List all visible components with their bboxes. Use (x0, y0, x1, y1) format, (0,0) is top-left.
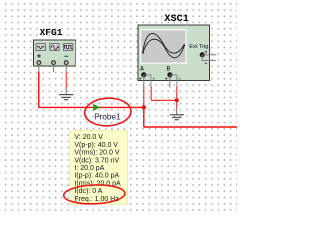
wire ground node down (176, 100, 178, 108)
XSC1 screen waveform trace lower (143, 39, 185, 58)
node junction ground (175, 98, 179, 102)
XFG1 terminal - (pin 3) (64, 61, 68, 65)
annotation red ellipse around Probe1 (84, 97, 132, 127)
XSC1 A polarity marks (139, 78, 155, 80)
svg-text:V(dc): 3.70 nV: V(dc): 3.70 nV (74, 157, 119, 164)
wire node down and right to edge (144, 107, 237, 127)
svg-text:I(dc): 0 A: I(dc): 0 A (74, 188, 102, 195)
XFG1 minus terminal label (64, 55, 68, 57)
svg-text:B: B (166, 66, 170, 73)
XSC1 screen (141, 30, 186, 63)
wire scope B- down to ground node (176, 86, 178, 100)
XFG1 terminal + (pin 1) (37, 61, 41, 65)
XSC1 pin B- (170, 75, 177, 87)
wire XFG1 plus down and right to node (39, 72, 144, 108)
XSC1 Ext Trig terminal (200, 51, 207, 57)
XFG1 sine wave button (36, 44, 45, 51)
XSC1 terminal B (168, 72, 173, 77)
annotation red ellipse around Freq value (63, 184, 125, 205)
XSC1 pin A- (144, 75, 151, 87)
svg-text:XSC1: XSC1 (164, 14, 188, 25)
wire scope A- down and right to ground node (151, 86, 176, 100)
XSC1 terminal A (141, 72, 146, 77)
svg-text:V(p-p): 40.0 V: V(p-p): 40.0 V (74, 142, 118, 149)
svg-text:A: A (140, 66, 144, 73)
function generator XFG1 body (34, 40, 77, 66)
probe readout box Probe1 values (70, 130, 128, 204)
svg-text:V(rms): 20.0 V: V(rms): 20.0 V (74, 150, 119, 157)
XFG1 pin stub - (65, 65, 67, 72)
XSC1 screen waveform trace upper (143, 33, 185, 53)
XFG1 square wave button (63, 44, 72, 51)
XFG1 triangle wave button (50, 44, 59, 51)
ground GND1 below XFG1 (59, 89, 73, 100)
wire scope A+ down to node (143, 86, 145, 107)
XFG1 pin stub + (38, 65, 40, 72)
svg-text:I: 20.0 pA: I: 20.0 pA (74, 165, 104, 172)
oscilloscope XSC1 body (138, 25, 210, 81)
XSC1 pin A+ (143, 75, 145, 87)
XSC1 trace end markers (142, 44, 185, 53)
XFG1 terminal COM (pin 2) (52, 61, 56, 65)
svg-text:XFG1: XFG1 (40, 27, 63, 38)
wire XFG1 minus to ground (65, 72, 67, 89)
XSC1 Ext Trig pin + (202, 54, 216, 56)
XSC1 Ext Trig minus mark (205, 62, 207, 64)
svg-text:I(p-p): 40.0 pA: I(p-p): 40.0 pA (74, 173, 119, 180)
probe arrow Probe1 (94, 104, 100, 110)
XSC1 pin B+ (169, 75, 171, 88)
svg-text:Ext Trig.: Ext Trig. (189, 44, 210, 50)
XFG1 plus terminal label (37, 54, 41, 58)
node junction main (A+/source/out) (142, 105, 146, 109)
svg-text:V: 20.0 V: V: 20.0 V (74, 134, 103, 141)
XSC1 Ext Trig pin - (202, 55, 215, 61)
XFG1 pin stub COM (53, 65, 55, 73)
ground GND2 below scope (170, 108, 184, 119)
XSC1 B polarity marks (165, 78, 181, 80)
svg-text:Probe1: Probe1 (94, 112, 121, 121)
